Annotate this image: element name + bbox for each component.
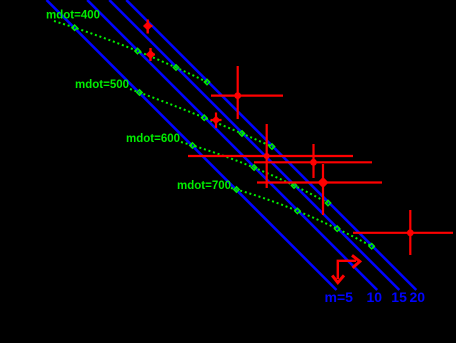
svg-text:mdot=700: mdot=700 (177, 180, 231, 192)
svg-text:mdot=500: mdot=500 (75, 79, 129, 91)
diamond marker mdot=400 crossing 1 (72, 25, 77, 30)
line m=5 (47, 0, 337, 290)
diamond marker mdot=400 crossing 2 (135, 48, 140, 53)
data point F (410.3,232.8) with error bars (353, 232, 453, 234)
svg-text:m=5: m=5 (325, 289, 354, 305)
data point B (150.5,54.5) (149, 48, 151, 61)
line m=20 (126, 0, 416, 290)
limit arrow (down and right) (338, 261, 356, 279)
line m=10 (87, 0, 377, 290)
diamond marker mdot=600 crossing 1 (190, 143, 195, 148)
diamond marker mdot=500 crossing 3 (239, 131, 244, 136)
diamond marker mdot=500 crossing 4 (269, 144, 274, 149)
diamond marker mdot=400 crossing 4 (204, 79, 209, 84)
diamond marker mdot=400 crossing 3 (173, 65, 178, 70)
dotted track mdot=600 (181, 142, 328, 203)
data point B2 (216,120) (215, 113, 217, 129)
diamond marker mdot=700 crossing 4 (369, 244, 374, 249)
diamond marker mdot=700 crossing 1 (234, 187, 239, 192)
dotted track mdot=500 (130, 89, 273, 147)
diamond marker mdot=500 crossing 1 (137, 90, 142, 95)
data point D (313.5,162.3) with error bars (254, 161, 372, 163)
svg-text:mdot=600: mdot=600 (126, 133, 180, 145)
svg-text:15: 15 (391, 289, 407, 305)
svg-text:20: 20 (410, 289, 426, 305)
svg-text:10: 10 (367, 289, 383, 305)
data point C (266.7,156) with error bars (188, 155, 353, 157)
dotted track mdot=700 (231, 188, 375, 248)
data point E (323,182.5) diamond with error bars (257, 181, 382, 183)
diamond marker mdot=700 crossing 3 (335, 226, 340, 231)
data point C0 (237.7,95.6) with error bars (211, 94, 283, 96)
dotted track mdot=400 (54, 21, 207, 82)
diamond marker mdot=500 crossing 2 (202, 115, 207, 120)
diamond marker mdot=600 crossing 4 (325, 200, 330, 205)
data point A (147.7,26) (146, 20, 148, 34)
svg-text:mdot=400: mdot=400 (46, 10, 100, 22)
line m=15 (109, 0, 399, 290)
diamond marker mdot=700 crossing 2 (295, 208, 300, 213)
diamond marker mdot=600 crossing 2 (251, 165, 256, 170)
diamond marker mdot=600 crossing 3 (291, 183, 296, 188)
